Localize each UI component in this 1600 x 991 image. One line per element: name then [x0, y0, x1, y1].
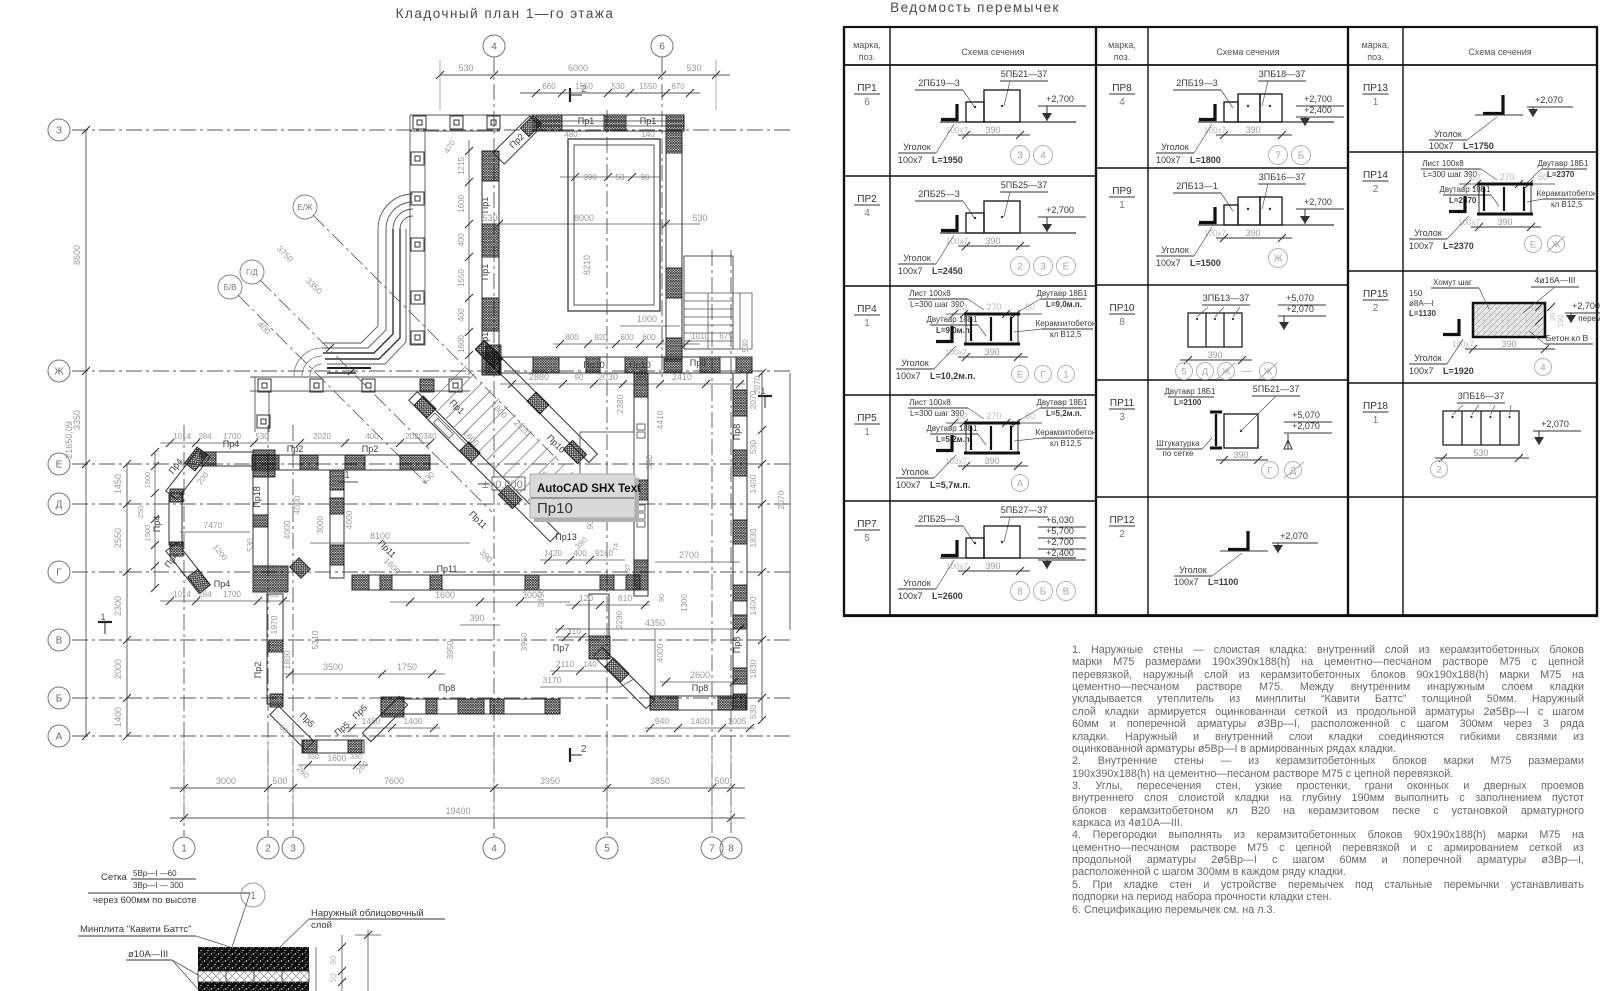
svg-text:марка,: марка,	[853, 40, 881, 50]
svg-text:530: 530	[611, 82, 625, 91]
svg-text:Е: Е	[1017, 369, 1023, 380]
dim	[1435, 457, 1529, 459]
svg-text:5Вр—I —60: 5Вр—I —60	[133, 869, 177, 878]
svg-text:390: 390	[1207, 350, 1222, 360]
svg-text:Пр8: Пр8	[732, 424, 742, 440]
position circles	[1011, 146, 1030, 165]
svg-text:ПР5: ПР5	[857, 413, 877, 424]
axis 4 bottom	[483, 837, 505, 859]
svg-text:100х7: 100х7	[946, 237, 968, 246]
small box	[1224, 102, 1238, 122]
svg-text:100х7: 100х7	[945, 457, 967, 466]
svg-text:190: 190	[1556, 315, 1565, 328]
svg-text:ø8А—I: ø8А—I	[1409, 299, 1434, 308]
svg-text:4: 4	[1040, 151, 1046, 162]
svg-text:390: 390	[1497, 217, 1512, 227]
axis Б	[48, 687, 70, 709]
svg-text:через 600мм по высоте: через 600мм по высоте	[93, 895, 197, 906]
svg-text:Лист 100х8: Лист 100х8	[909, 289, 951, 298]
svg-text:50: 50	[329, 973, 338, 982]
svg-text:100х7: 100х7	[1156, 258, 1181, 268]
svg-text:400: 400	[365, 432, 379, 441]
svg-text:Ж: Ж	[54, 367, 64, 378]
small box	[966, 213, 984, 233]
svg-text:5: 5	[864, 533, 870, 544]
table group verticals	[843, 27, 845, 616]
bottom dim chain 1	[170, 787, 745, 789]
bay left diagonal	[270, 706, 314, 750]
svg-text:90: 90	[575, 373, 584, 382]
svg-text:кл В12,5: кл В12,5	[1050, 330, 1082, 339]
svg-text:L=1750: L=1750	[1463, 141, 1494, 151]
svg-text:+2,070: +2,070	[1541, 419, 1569, 429]
svg-text:3950: 3950	[519, 632, 529, 651]
svg-text:3850: 3850	[650, 776, 670, 786]
dim under scheme	[958, 245, 1030, 247]
svg-text:Уголок: Уголок	[1161, 142, 1189, 152]
svg-text:3950: 3950	[445, 640, 455, 659]
svg-text:2ПБ25—3: 2ПБ25—3	[918, 189, 959, 199]
curved stair lane lines	[322, 229, 378, 343]
svg-text:600: 600	[620, 333, 634, 342]
axis 4 top	[483, 35, 505, 57]
svg-text:390: 390	[985, 561, 1000, 571]
svg-text:AutoCAD SHX Text: AutoCAD SHX Text	[537, 483, 641, 495]
svg-text:675: 675	[719, 332, 733, 341]
svg-text:L=1920: L=1920	[1443, 366, 1474, 376]
svg-text:1400: 1400	[691, 716, 710, 726]
svg-text:2: 2	[1119, 529, 1125, 540]
diagonal axis callout Е/Ж	[293, 195, 317, 219]
svg-text:Пр10: Пр10	[629, 360, 651, 370]
right outer wall	[733, 373, 747, 710]
table group verticals	[1095, 27, 1097, 616]
svg-text:4350: 4350	[645, 618, 665, 628]
svg-text:19400: 19400	[445, 806, 470, 816]
table group row lines	[1348, 64, 1597, 66]
svg-text:600: 600	[642, 333, 656, 342]
svg-text:3450: 3450	[536, 588, 546, 607]
svg-text:перем.: перем.	[1578, 314, 1600, 323]
svg-text:390: 390	[1233, 450, 1248, 460]
box with ibeams	[966, 314, 1018, 344]
svg-text:140: 140	[583, 660, 597, 669]
svg-text:4: 4	[1540, 362, 1545, 373]
svg-text:+2,700: +2,700	[1046, 94, 1074, 104]
small window boxes on wall	[637, 424, 645, 430]
svg-text:3ПБ13—37: 3ПБ13—37	[1203, 293, 1249, 303]
svg-text:530: 530	[748, 440, 758, 454]
svg-text:4: 4	[864, 208, 870, 219]
svg-text:5: 5	[604, 844, 610, 855]
svg-text:1600: 1600	[328, 753, 347, 763]
bottom wall of block	[500, 357, 752, 373]
position circles	[1269, 249, 1288, 268]
svg-text:Уголок: Уголок	[903, 578, 931, 588]
dim under scheme	[958, 570, 1030, 572]
left wall of block	[482, 151, 499, 375]
svg-text:920: 920	[594, 333, 608, 342]
section mark 2 bottom	[569, 748, 571, 762]
svg-text:+2,400: +2,400	[1304, 105, 1332, 115]
section mark 1 right	[758, 395, 772, 397]
svg-text:660: 660	[542, 82, 556, 91]
svg-text:1830: 1830	[748, 659, 758, 678]
svg-text:1400: 1400	[404, 716, 423, 726]
svg-text:+2,700: +2,700	[1304, 94, 1332, 104]
svg-text:Пр13: Пр13	[555, 532, 577, 542]
svg-text:4410: 4410	[655, 410, 665, 429]
svg-text:1: 1	[1373, 415, 1379, 426]
box with ibeams	[966, 423, 1018, 453]
axis E wall with Пр2 piers	[252, 455, 430, 470]
svg-text:L=9,0м.п.: L=9,0м.п.	[1046, 300, 1082, 309]
svg-text:6: 6	[864, 97, 870, 108]
vertical axis lines	[183, 425, 185, 836]
angle	[950, 326, 953, 343]
svg-text:2030: 2030	[598, 372, 618, 382]
svg-text:90: 90	[329, 955, 338, 964]
diagonal piers on stair walls	[475, 340, 503, 368]
dim under scheme	[1216, 134, 1292, 136]
diagonal axis callout Б/В	[218, 275, 242, 299]
detail: crosshatch row	[198, 971, 309, 982]
svg-text:600: 600	[265, 590, 279, 599]
svg-text:L=10,2м.п.: L=10,2м.п.	[930, 371, 975, 381]
svg-text:Г: Г	[1040, 369, 1045, 380]
axis З	[48, 119, 70, 141]
svg-text:60: 60	[1470, 172, 1480, 182]
svg-text:4000: 4000	[344, 510, 354, 529]
svg-text:2000: 2000	[113, 659, 123, 679]
svg-text:Пр10: Пр10	[537, 500, 573, 517]
boxes	[1188, 313, 1242, 347]
svg-text:1500: 1500	[143, 525, 152, 542]
svg-text:Пр18: Пр18	[252, 486, 262, 508]
svg-text:3Вр—I — 300: 3Вр—I — 300	[133, 881, 184, 890]
svg-text:Схема сечения: Схема сечения	[1468, 47, 1531, 57]
svg-text:L=1100: L=1100	[1208, 577, 1238, 587]
table group row lines	[844, 64, 1096, 66]
wall below bay	[267, 594, 283, 704]
top dim chain 1	[440, 74, 730, 76]
svg-text:0.000: 0.000	[495, 479, 523, 491]
svg-text:Минплита "Кавити Баттс": Минплита "Кавити Баттс"	[80, 924, 192, 935]
svg-text:100х7: 100х7	[896, 371, 921, 381]
svg-text:100х7: 100х7	[946, 562, 968, 571]
box with ibeams	[1479, 184, 1531, 214]
svg-text:Уголок: Уголок	[901, 358, 929, 368]
svg-text:530: 530	[482, 213, 497, 223]
svg-text:ПР7: ПР7	[857, 519, 877, 530]
table group verticals	[1347, 27, 1349, 616]
svg-text:50: 50	[616, 173, 625, 182]
circles	[1525, 236, 1542, 253]
svg-text:390: 390	[985, 125, 1000, 135]
axis Е	[48, 453, 70, 475]
svg-text:530: 530	[458, 63, 473, 73]
angle	[955, 215, 958, 232]
svg-text:8: 8	[1119, 317, 1125, 328]
svg-text:3000: 3000	[216, 776, 236, 786]
svg-text:ø10А—III: ø10А—III	[128, 949, 168, 960]
svg-text:1550: 1550	[639, 82, 657, 91]
big box 1	[1238, 197, 1260, 225]
svg-text:530: 530	[692, 213, 707, 223]
svg-text:ПР9: ПР9	[1112, 186, 1132, 197]
svg-text:1: 1	[1119, 200, 1125, 211]
svg-text:ПР10: ПР10	[1110, 303, 1135, 314]
interior vertical wall x330	[330, 470, 344, 578]
svg-text:140: 140	[641, 130, 655, 139]
circles	[1012, 366, 1029, 383]
svg-text:Пр9: Пр9	[690, 358, 706, 368]
svg-text:100х7: 100х7	[946, 126, 968, 135]
dim 390	[1471, 226, 1541, 228]
svg-text:+6,030: +6,030	[1046, 515, 1074, 525]
svg-text:2380: 2380	[615, 394, 625, 413]
svg-text:ПР11: ПР11	[1110, 398, 1135, 409]
svg-text:340: 340	[423, 432, 437, 441]
svg-text:Схема сечения: Схема сечения	[1216, 47, 1279, 57]
svg-text:100х7: 100х7	[898, 266, 923, 276]
svg-text:330: 330	[350, 754, 362, 761]
svg-text:2020: 2020	[405, 432, 423, 441]
svg-text:слой: слой	[311, 920, 332, 931]
right dim chain	[761, 373, 763, 720]
angle	[1463, 196, 1466, 213]
svg-text:Кладочный план 1—го этажа: Кладочный план 1—го этажа	[396, 6, 615, 21]
svg-text:90: 90	[657, 594, 666, 602]
top dim chain 2	[520, 92, 700, 94]
svg-text:Е: Е	[1530, 239, 1536, 250]
svg-text:Пр2: Пр2	[253, 662, 263, 678]
svg-text:Б/В: Б/В	[224, 283, 237, 292]
svg-text:Пр2: Пр2	[287, 444, 303, 454]
svg-text:390: 390	[469, 613, 484, 623]
svg-text:500: 500	[714, 776, 729, 786]
svg-text:100х7: 100х7	[898, 155, 923, 165]
svg-text:Ведомость перемычек: Ведомость перемычек	[890, 0, 1060, 15]
angle	[950, 435, 953, 452]
svg-text:3ПБ16—37: 3ПБ16—37	[1259, 172, 1305, 182]
svg-text:5ПБ21—37: 5ПБ21—37	[1253, 384, 1299, 394]
svg-text:+2,070: +2,070	[1535, 95, 1563, 105]
svg-text:400: 400	[457, 233, 466, 247]
svg-text:270: 270	[1499, 172, 1514, 182]
svg-text:+2,070: +2,070	[1280, 531, 1308, 541]
svg-text:100х7: 100х7	[1452, 340, 1474, 349]
svg-text:Уголок: Уголок	[1414, 228, 1442, 238]
svg-text:+5,700: +5,700	[1046, 526, 1074, 536]
svg-text:Д: Д	[56, 500, 63, 511]
axis Г	[48, 561, 70, 583]
wall stub on axis Ж	[327, 367, 371, 369]
svg-text:L=2370: L=2370	[1449, 196, 1477, 205]
baseline	[1198, 121, 1334, 123]
svg-text:7: 7	[709, 844, 715, 855]
svg-text:1800: 1800	[282, 650, 292, 669]
stairs right of pool	[684, 256, 733, 349]
dim under scheme	[1216, 237, 1292, 239]
svg-text:2: 2	[1436, 464, 1441, 475]
svg-text:по сетке: по сетке	[1163, 449, 1194, 458]
dim chain left of block wall	[468, 140, 470, 375]
svg-text:530: 530	[686, 63, 701, 73]
top wall of block	[533, 115, 684, 131]
svg-text:3: 3	[290, 844, 296, 855]
svg-text:670: 670	[671, 82, 685, 91]
axis 2 bottom	[257, 837, 279, 859]
svg-text:Пр8: Пр8	[439, 683, 455, 693]
svg-text:+2,700: +2,700	[1046, 537, 1074, 547]
svg-text:ПР18: ПР18	[1363, 401, 1388, 412]
detail: speckled block top	[198, 947, 309, 971]
svg-text:100х7: 100х7	[945, 348, 967, 357]
svg-text:2: 2	[265, 844, 271, 855]
svg-text:100х7: 100х7	[1174, 577, 1199, 587]
svg-text:Штукатурка: Штукатурка	[1156, 439, 1200, 448]
svg-text:2600: 2600	[690, 670, 710, 680]
svg-text:2ПБ19—3: 2ПБ19—3	[1176, 78, 1217, 88]
svg-text:4: 4	[491, 42, 497, 53]
angle	[1213, 207, 1216, 224]
svg-text:L=1130: L=1130	[1409, 309, 1436, 318]
AutoCAD tooltip shadow	[534, 478, 639, 522]
small box	[966, 102, 984, 122]
svg-text:8100: 8100	[370, 531, 390, 541]
svg-text:Пр2: Пр2	[362, 444, 378, 454]
svg-text:Пр1: Пр1	[640, 116, 656, 126]
svg-text:Б: Б	[1040, 587, 1047, 598]
big box	[984, 526, 1020, 558]
axis 8 bottom	[720, 837, 742, 859]
svg-text:Пр4: Пр4	[152, 516, 162, 532]
svg-text:Лист 100х8: Лист 100х8	[1422, 159, 1464, 168]
big box 1	[1238, 94, 1260, 122]
svg-text:1005: 1005	[728, 716, 747, 726]
svg-text:5: 5	[1181, 366, 1186, 377]
svg-text:530: 530	[246, 538, 255, 552]
svg-text:284: 284	[198, 590, 212, 599]
axis 1 bottom	[173, 837, 195, 859]
svg-text:1300: 1300	[680, 594, 689, 612]
svg-text:—: —	[1242, 366, 1252, 377]
svg-text:120: 120	[579, 593, 593, 603]
svg-text:Ж: Ж	[1273, 254, 1283, 265]
dims above bottom wall	[553, 343, 700, 345]
svg-text:2ПБ13—1: 2ПБ13—1	[1176, 181, 1217, 191]
svg-text:390: 390	[583, 173, 597, 182]
svg-text:В: В	[56, 636, 63, 647]
svg-text:марка,: марка,	[1108, 40, 1136, 50]
bay dims	[154, 452, 156, 588]
svg-text:+2,700: +2,700	[1304, 197, 1332, 207]
svg-text:8: 8	[1017, 587, 1023, 598]
svg-text:В: В	[1063, 587, 1070, 598]
svg-text:кл В12,5: кл В12,5	[1551, 200, 1583, 209]
svg-text:1400: 1400	[748, 474, 758, 493]
svg-text:100х7: 100х7	[1156, 155, 1181, 165]
svg-text:Д: Д	[1202, 366, 1209, 377]
svg-text:Хомут шаг: Хомут шаг	[1433, 278, 1472, 287]
svg-text:3500: 3500	[323, 662, 343, 672]
svg-text:1450: 1450	[113, 474, 123, 494]
diagonal wall from Пр7 to bottom	[605, 658, 629, 682]
svg-text:1750: 1750	[397, 662, 417, 672]
svg-text:100х7: 100х7	[1409, 366, 1434, 376]
svg-text:1: 1	[100, 612, 105, 622]
svg-text:Г: Г	[56, 568, 62, 579]
svg-text:Уголок: Уголок	[1161, 245, 1189, 255]
svg-text:4000: 4000	[292, 495, 302, 514]
svg-text:L=2100: L=2100	[1174, 398, 1202, 407]
svg-text:Лист 100х8: Лист 100х8	[909, 398, 951, 407]
svg-text:8000: 8000	[574, 213, 594, 223]
svg-text:390: 390	[644, 455, 654, 469]
circles	[1176, 363, 1193, 380]
diagonal stair upper wall	[476, 341, 598, 463]
svg-text:Сетка: Сетка	[101, 872, 128, 883]
svg-text:Пр8: Пр8	[732, 637, 742, 653]
svg-text:1420: 1420	[544, 549, 562, 558]
svg-text:1500: 1500	[143, 472, 152, 489]
svg-text:800: 800	[565, 333, 579, 342]
svg-text:7: 7	[1275, 151, 1281, 162]
svg-text:1600: 1600	[435, 590, 455, 600]
svg-text:1: 1	[250, 890, 256, 902]
svg-text:2020: 2020	[313, 432, 331, 441]
svg-text:4000: 4000	[282, 520, 292, 539]
svg-text:100х7: 100х7	[898, 591, 923, 601]
svg-text:Пр4: Пр4	[223, 439, 239, 449]
Пр18 vertical wall	[253, 466, 268, 566]
bay bottom diagonal wall	[166, 542, 210, 593]
svg-text:Пр7: Пр7	[553, 643, 569, 653]
position circles	[1269, 146, 1288, 165]
elevation box 0.000	[478, 483, 490, 485]
svg-text:1550: 1550	[457, 269, 466, 287]
central horizontal wall Пр11	[352, 575, 640, 590]
left dim chain 2	[126, 464, 128, 736]
svg-text:6: 6	[659, 42, 665, 53]
svg-text:Двутавр 18Б1: Двутавр 18Б1	[1036, 398, 1088, 407]
svg-text:2070: 2070	[776, 490, 786, 509]
circles ПР11	[1262, 462, 1279, 479]
baseline	[940, 232, 1076, 234]
big box	[984, 90, 1020, 122]
left end arcs of stair	[310, 364, 322, 376]
svg-text:4000: 4000	[655, 643, 665, 662]
svg-text:Двутавр 18Б1: Двутавр 18Б1	[1164, 387, 1216, 396]
svg-text:3: 3	[1040, 262, 1046, 273]
svg-text:390: 390	[984, 347, 999, 357]
svg-text:ПР4: ПР4	[857, 304, 877, 315]
svg-text:1550: 1550	[575, 82, 593, 91]
svg-text:100х7: 100х7	[1429, 141, 1454, 151]
svg-text:2: 2	[1017, 262, 1023, 273]
svg-text:6000: 6000	[568, 63, 588, 73]
svg-text:390: 390	[984, 456, 999, 466]
position circles	[1011, 257, 1030, 276]
svg-text:Б: Б	[1298, 151, 1305, 162]
bottom-right wall	[650, 696, 747, 710]
svg-text:+2,070: +2,070	[1292, 421, 1320, 431]
dim 390	[958, 356, 1028, 358]
big box	[984, 201, 1020, 233]
svg-text:2ПБ19—3: 2ПБ19—3	[918, 78, 959, 88]
diagonal axis callout Г/Д	[240, 260, 264, 284]
